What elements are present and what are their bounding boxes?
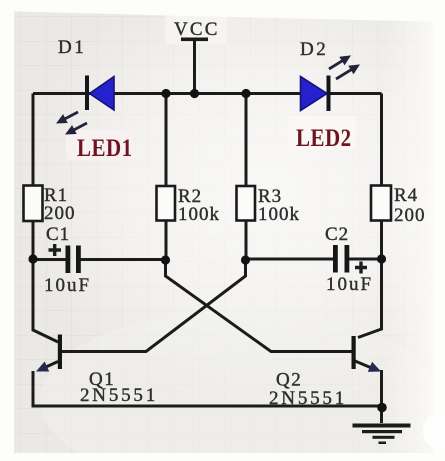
- svg-text:10uF: 10uF: [326, 274, 373, 295]
- svg-text:200: 200: [44, 203, 76, 224]
- svg-text:2N5551: 2N5551: [80, 385, 158, 406]
- svg-text:LED1: LED1: [77, 134, 133, 162]
- svg-text:C2: C2: [325, 224, 349, 245]
- svg-text:VCC: VCC: [174, 19, 220, 40]
- svg-text:D2: D2: [300, 39, 328, 60]
- svg-text:C1: C1: [46, 224, 70, 245]
- svg-text:100k: 100k: [178, 204, 220, 225]
- svg-text:R4: R4: [394, 185, 418, 206]
- svg-text:100k: 100k: [258, 204, 300, 225]
- svg-text:LED2: LED2: [296, 124, 352, 152]
- svg-text:D1: D1: [58, 37, 86, 58]
- svg-text:10uF: 10uF: [44, 275, 91, 296]
- svg-text:2N5551: 2N5551: [269, 388, 347, 409]
- svg-text:200: 200: [394, 205, 426, 226]
